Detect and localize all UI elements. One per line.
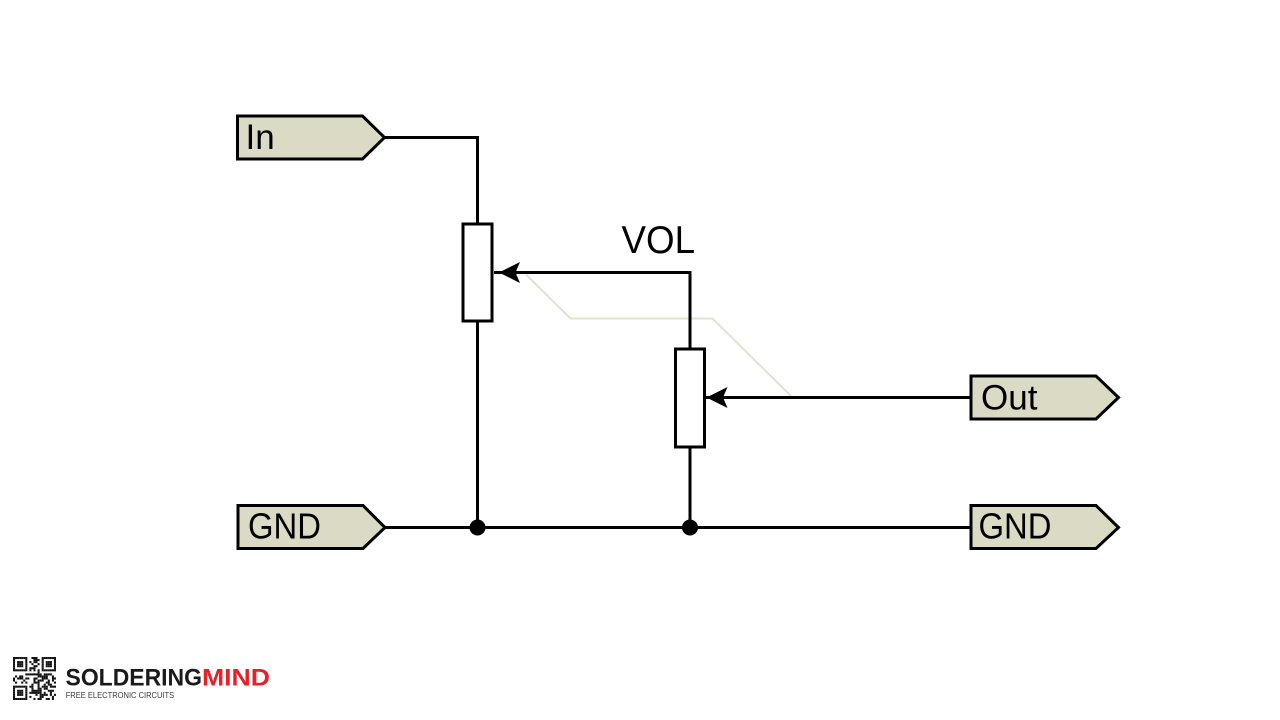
terminal Out bbox=[971, 376, 1119, 419]
GND bus wire bbox=[385, 526, 971, 529]
wiper arrow RV1 bbox=[499, 262, 520, 283]
terminal In bbox=[238, 116, 385, 159]
svg-text:In: In bbox=[246, 118, 275, 157]
svg-text:FREE ELECTRONIC CIRCUITS: FREE ELECTRONIC CIRCUITS bbox=[66, 690, 175, 700]
wire RV1 bottom to GND bus bbox=[476, 321, 479, 528]
svg-text:SOLDERINGMIND: SOLDERINGMIND bbox=[66, 665, 271, 692]
wire RV2 wiper to Out bbox=[704, 396, 971, 399]
wiper arrow RV2 bbox=[707, 387, 728, 408]
junction node RV1/GND bbox=[470, 520, 486, 536]
wire In to RV1 top bbox=[385, 138, 478, 226]
logo QR code bbox=[13, 657, 56, 700]
svg-text:GND: GND bbox=[248, 506, 321, 547]
terminal GND right bbox=[971, 506, 1119, 549]
wire RV2 bottom to GND bus bbox=[689, 447, 692, 528]
potentiometer RV1 body bbox=[463, 224, 492, 321]
ghost wire (drag artifact) bbox=[526, 275, 791, 397]
potentiometer RV2 body bbox=[676, 349, 705, 447]
svg-text:Out: Out bbox=[981, 379, 1038, 418]
wire RV1 wiper to RV2 top bbox=[494, 273, 690, 351]
junction node RV2/GND bbox=[682, 520, 698, 536]
svg-text:GND: GND bbox=[979, 506, 1052, 547]
terminal GND left bbox=[238, 506, 385, 549]
svg-text:VOL: VOL bbox=[622, 219, 696, 262]
